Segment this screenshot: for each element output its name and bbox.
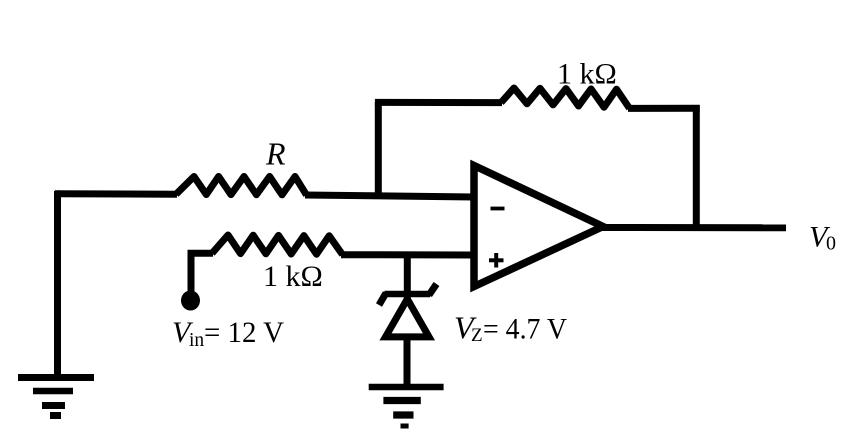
resistor R3 (1 kOhm input) xyxy=(212,235,343,255)
op-amp non-inverting input label (plus) xyxy=(489,253,504,268)
svg-text:R: R xyxy=(265,136,286,172)
wire: horizontal from left corner to resistor R xyxy=(55,190,177,198)
svg-text:= 4.7 V: = 4.7 V xyxy=(483,313,567,346)
resistor R1 (R) xyxy=(176,177,307,196)
wire: from resistor R to op-amp inverting input xyxy=(305,195,474,197)
wire: Vin stub to input resistor xyxy=(188,250,214,257)
svg-text:= 12 V: = 12 V xyxy=(204,316,284,349)
svg-text:Z: Z xyxy=(471,325,483,346)
wire: zener to ground xyxy=(404,335,411,387)
wire: feedback top horizontal to resistor xyxy=(375,99,502,106)
wire: zener top vertical from + input wire xyxy=(404,252,411,300)
wire: feedback left vertical (junction at inverting input) xyxy=(375,102,382,196)
svg-text:in: in xyxy=(189,330,204,351)
op-amp U1 xyxy=(474,166,603,287)
label Vin = 12 V xyxy=(172,316,284,351)
zener diode D1: cathode bar with bent ends xyxy=(379,284,437,305)
op-amp inverting input label (minus) xyxy=(491,207,505,211)
svg-text:1 kΩ: 1 kΩ xyxy=(557,58,617,91)
ground: middle ground symbol xyxy=(369,387,444,426)
wire: left vertical from R wire down to ground xyxy=(58,194,61,378)
terminal Vin: input stub xyxy=(188,253,195,293)
ground: left ground symbol xyxy=(18,378,94,416)
wire: input resistor to op-amp non-inverting input xyxy=(341,251,474,258)
label V0 (output) xyxy=(809,221,836,255)
svg-text:1 kΩ: 1 kΩ xyxy=(263,260,323,293)
wire: feedback resistor to right vertical xyxy=(628,105,700,112)
zener diode D1: anode triangle xyxy=(386,299,430,337)
terminal Vin: solder dot xyxy=(181,291,200,311)
label VZ = 4.7 V xyxy=(454,310,567,347)
wire: op-amp output xyxy=(601,224,786,231)
wire: feedback right vertical down to output xyxy=(693,105,700,228)
resistor R2 (1 kOhm feedback) xyxy=(501,88,630,108)
svg-text:0: 0 xyxy=(826,233,836,255)
